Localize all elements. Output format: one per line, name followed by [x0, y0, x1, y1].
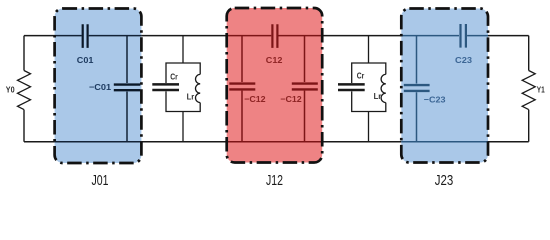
svg-text:−C23: −C23 [424, 95, 446, 105]
wire right vertical (port 1) [528, 36, 530, 142]
capacitor -C23 (shunt) [404, 85, 430, 91]
inverter box J12 fill [227, 8, 323, 163]
resonator 2 loop [352, 63, 386, 112]
wire top bus [24, 35, 529, 37]
capacitor -C12 right (shunt) [292, 84, 318, 90]
capacitor Cr (resonator 1) [152, 84, 179, 90]
svg-text:J12: J12 [266, 172, 283, 189]
svg-text:C23: C23 [455, 55, 472, 65]
resonator 1 stem top wire [182, 36, 184, 63]
svg-text:Y0: Y0 [6, 84, 15, 94]
inverter box J23 fill [401, 9, 488, 163]
resonator 2 stem bottom wire [368, 112, 370, 142]
inverter box J12 border [227, 8, 323, 163]
svg-text:−C01: −C01 [89, 82, 112, 92]
wire bottom bus [24, 141, 529, 143]
resonator 2 stem top wire [368, 36, 370, 63]
resistor Y1 [522, 71, 535, 110]
J12 inner wires (maroon) [227, 36, 323, 142]
J23 inner wires (navy) [401, 36, 488, 142]
wire left vertical (port 0) [23, 36, 25, 142]
inverter box J23 border [401, 9, 488, 163]
capacitor -C12 left (shunt) [229, 84, 255, 90]
resonator 1 loop [166, 63, 200, 112]
resistor Y0 [18, 71, 31, 110]
svg-text:Cr: Cr [357, 70, 365, 80]
svg-text:Lr: Lr [374, 91, 382, 101]
capacitor C23 (series) [461, 24, 466, 48]
resonator 1 stem bottom wire [182, 112, 184, 142]
inductor Lr (resonator 2) [381, 74, 386, 102]
inverter box J01 fill [55, 9, 142, 164]
svg-text:−C12: −C12 [280, 94, 302, 104]
svg-text:Lr: Lr [187, 91, 195, 101]
svg-text:C01: C01 [77, 55, 94, 65]
inverter box J01 border [55, 9, 142, 164]
svg-text:−C12: −C12 [244, 94, 266, 104]
svg-text:Y1: Y1 [537, 84, 545, 94]
svg-text:C12: C12 [266, 55, 283, 65]
capacitor C12 (series) [272, 24, 277, 48]
capacitor Cr (resonator 2) [338, 84, 365, 90]
capacitor C01 (series) [83, 24, 88, 48]
J01 inner wires (navy-black) [55, 36, 142, 142]
svg-text:J23: J23 [435, 172, 454, 189]
svg-text:J01: J01 [92, 172, 109, 189]
capacitor -C01 (shunt) [114, 85, 141, 91]
svg-text:Cr: Cr [170, 72, 178, 82]
inductor Lr (resonator 1) [195, 74, 200, 102]
